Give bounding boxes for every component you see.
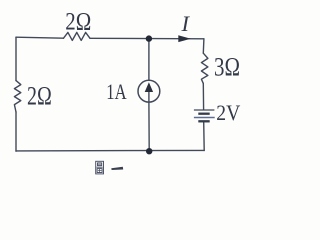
resistor 2Ω left (zigzag) — [14, 81, 20, 112]
current source I1 circle — [138, 80, 160, 102]
caption character 圖 (figure) box glyph — [96, 161, 104, 174]
wire left side upper — [15, 37, 17, 80]
wire right above battery — [202, 83, 204, 109]
wire middle branch lower — [148, 102, 150, 151]
svg-text:3Ω: 3Ω — [214, 53, 240, 82]
svg-text:I: I — [181, 11, 191, 36]
battery V1 plate long lower (bluish) — [194, 117, 215, 119]
battery V1 plate short thick upper — [198, 113, 209, 115]
battery V1 plate short thick bottom — [198, 120, 209, 122]
svg-text:2Ω: 2Ω — [65, 9, 91, 36]
node junction dot top — [146, 35, 152, 41]
resistor 3Ω right (zigzag) — [201, 53, 208, 83]
wire left side lower — [15, 112, 17, 151]
wire top-left segment — [16, 36, 63, 39]
current source arrow stem — [148, 92, 150, 102]
caption character 一 (one) stroke — [111, 167, 123, 170]
wire top-right segment — [90, 37, 204, 40]
battery V1 plate long top — [194, 109, 215, 111]
resistor 2Ω top (zigzag) — [63, 32, 90, 40]
current direction arrow on top wire — [178, 35, 191, 42]
node junction dot bottom — [146, 148, 152, 154]
svg-text:1A: 1A — [106, 79, 126, 104]
wire bottom — [16, 149, 204, 152]
current source arrow head — [145, 82, 153, 92]
wire middle branch upper — [148, 39, 150, 81]
wire right side upper — [202, 39, 205, 53]
svg-text:2Ω: 2Ω — [27, 82, 52, 111]
svg-text:2V: 2V — [216, 100, 240, 125]
wire right below battery — [203, 122, 206, 151]
